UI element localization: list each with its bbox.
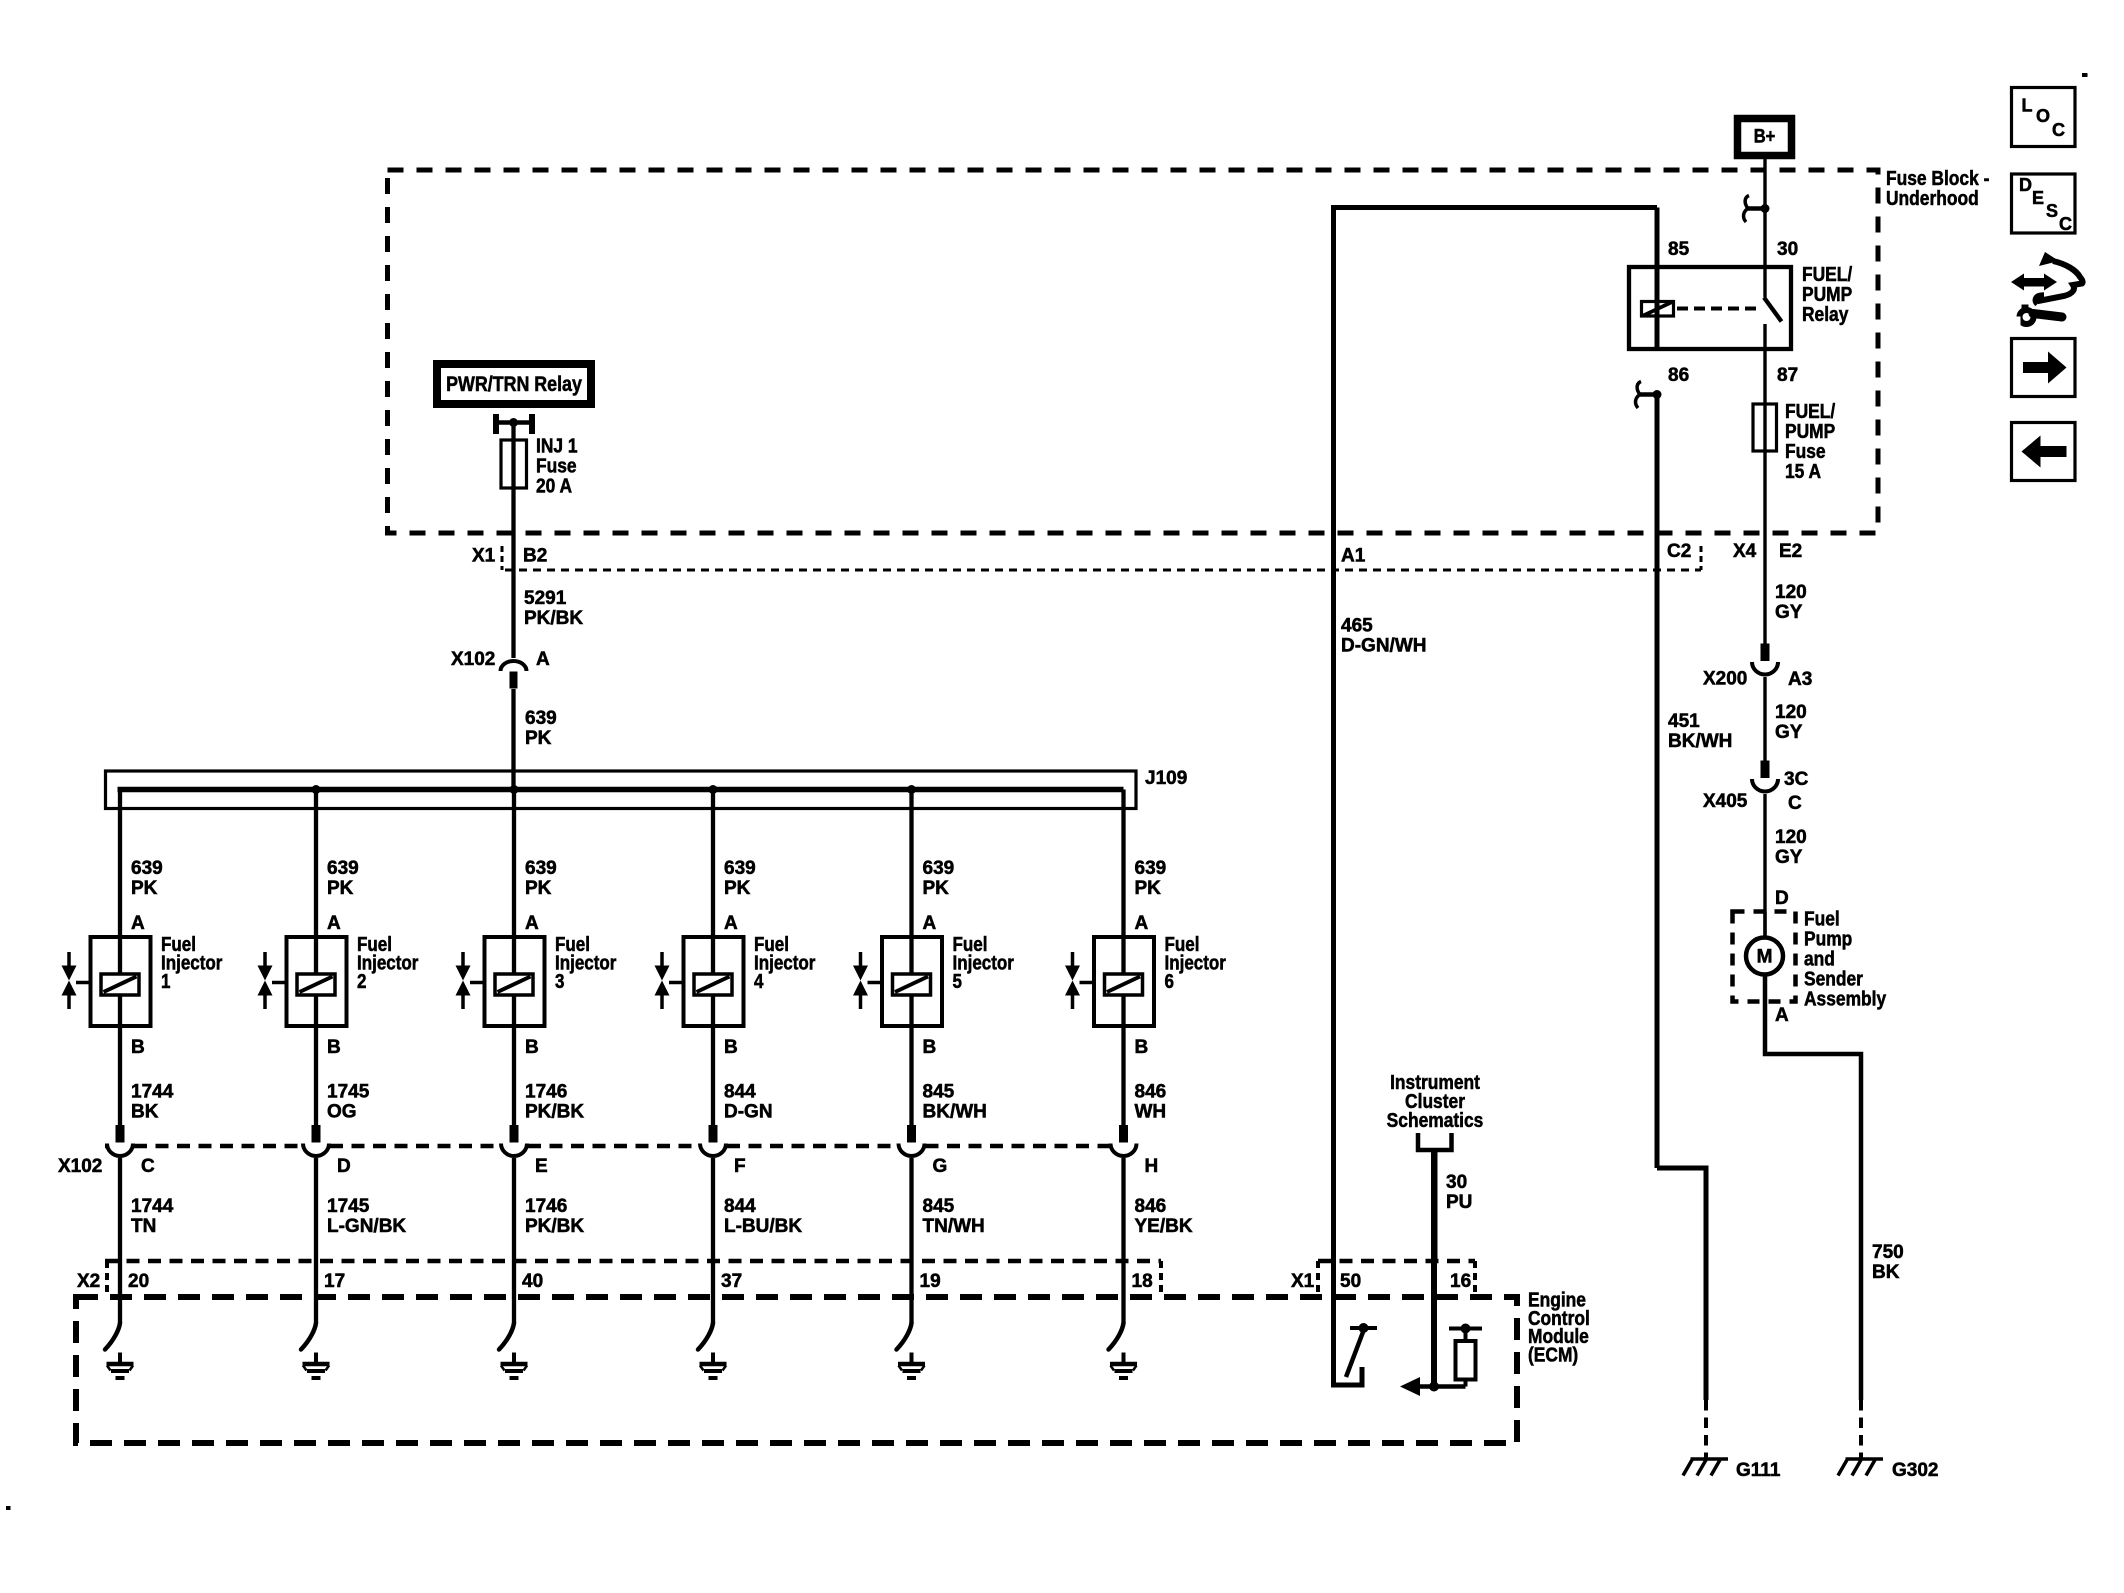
svg-text:844: 844 xyxy=(724,1082,756,1103)
svg-text:A3: A3 xyxy=(1788,669,1812,690)
svg-text:G111: G111 xyxy=(1736,1460,1781,1481)
svg-text:5291: 5291 xyxy=(524,588,567,609)
svg-text:GY: GY xyxy=(1775,602,1803,623)
svg-text:18: 18 xyxy=(1132,1271,1153,1292)
svg-text:1: 1 xyxy=(161,970,170,993)
svg-text:L-GN/BK: L-GN/BK xyxy=(327,1216,406,1237)
svg-text:844: 844 xyxy=(724,1196,756,1217)
svg-text:YE/BK: YE/BK xyxy=(1135,1216,1193,1237)
svg-text:750: 750 xyxy=(1872,1242,1904,1263)
svg-text:PK: PK xyxy=(923,878,950,899)
svg-text:X1: X1 xyxy=(472,546,496,567)
svg-text:A: A xyxy=(923,913,937,934)
svg-text:PK: PK xyxy=(724,878,751,899)
svg-text:BK: BK xyxy=(1872,1262,1900,1283)
svg-text:TN: TN xyxy=(131,1216,156,1237)
svg-text:120: 120 xyxy=(1775,827,1807,848)
svg-text:D-GN/WH: D-GN/WH xyxy=(1341,636,1426,657)
svg-text:PK: PK xyxy=(525,728,552,749)
svg-text:30: 30 xyxy=(1777,239,1798,260)
svg-text:A: A xyxy=(1775,1005,1789,1026)
svg-text:X102: X102 xyxy=(58,1156,102,1177)
svg-text:GY: GY xyxy=(1775,722,1803,743)
svg-text:C: C xyxy=(1788,793,1802,814)
svg-text:GY: GY xyxy=(1775,847,1803,868)
svg-text:639: 639 xyxy=(525,858,557,879)
svg-text:Underhood: Underhood xyxy=(1886,187,1979,209)
svg-text:845: 845 xyxy=(923,1196,955,1217)
svg-text:A: A xyxy=(536,649,550,670)
svg-text:B+: B+ xyxy=(1754,126,1776,147)
svg-text:846: 846 xyxy=(1135,1082,1167,1103)
svg-text:PK: PK xyxy=(525,878,552,899)
svg-text:16: 16 xyxy=(1450,1271,1471,1292)
svg-text:G302: G302 xyxy=(1892,1460,1938,1481)
svg-text:(ECM): (ECM) xyxy=(1528,1343,1578,1365)
svg-text:X200: X200 xyxy=(1703,669,1747,690)
svg-text:30: 30 xyxy=(1446,1172,1467,1193)
svg-text:639: 639 xyxy=(131,858,163,879)
svg-text:Relay: Relay xyxy=(1802,303,1849,325)
svg-text:845: 845 xyxy=(923,1082,955,1103)
svg-text:A: A xyxy=(1135,913,1149,934)
svg-text:B: B xyxy=(525,1037,539,1058)
svg-text:J109: J109 xyxy=(1145,768,1187,789)
svg-text:PU: PU xyxy=(1446,1192,1472,1213)
svg-text:E2: E2 xyxy=(1779,541,1802,562)
svg-text:D: D xyxy=(1775,888,1789,909)
svg-text:PK: PK xyxy=(1135,878,1162,899)
svg-text:1744: 1744 xyxy=(131,1082,174,1103)
svg-text:15 A: 15 A xyxy=(1785,460,1822,482)
svg-text:639: 639 xyxy=(923,858,955,879)
svg-text:BK: BK xyxy=(131,1102,159,1123)
svg-text:H: H xyxy=(1145,1156,1159,1177)
svg-text:PK: PK xyxy=(131,878,158,899)
svg-text:B: B xyxy=(724,1037,738,1058)
svg-text:TN/WH: TN/WH xyxy=(923,1216,985,1237)
svg-text:PK/BK: PK/BK xyxy=(524,608,583,629)
svg-text:X405: X405 xyxy=(1703,791,1748,812)
svg-text:PK/BK: PK/BK xyxy=(525,1216,584,1237)
svg-text:B: B xyxy=(327,1037,341,1058)
svg-text:PWR/TRN Relay: PWR/TRN Relay xyxy=(446,373,582,397)
svg-text:A: A xyxy=(525,913,539,934)
svg-text:86: 86 xyxy=(1668,365,1689,386)
svg-text:20: 20 xyxy=(128,1271,149,1292)
svg-text:85: 85 xyxy=(1668,239,1690,260)
svg-text:37: 37 xyxy=(721,1271,742,1292)
svg-text:G: G xyxy=(933,1156,948,1177)
svg-text:E: E xyxy=(535,1156,548,1177)
svg-text:3C: 3C xyxy=(1784,769,1809,790)
svg-text:L-BU/BK: L-BU/BK xyxy=(724,1216,802,1237)
svg-text:C: C xyxy=(141,1156,155,1177)
svg-text:1744: 1744 xyxy=(131,1196,174,1217)
svg-text:L: L xyxy=(2022,95,2033,115)
svg-text:19: 19 xyxy=(920,1271,941,1292)
svg-text:6: 6 xyxy=(1165,970,1174,993)
svg-text:639: 639 xyxy=(327,858,359,879)
svg-text:1746: 1746 xyxy=(525,1082,567,1103)
svg-text:639: 639 xyxy=(1135,858,1167,879)
svg-text:A1: A1 xyxy=(1341,546,1366,567)
svg-text:PK: PK xyxy=(327,878,354,899)
svg-text:40: 40 xyxy=(522,1271,543,1292)
svg-text:X2: X2 xyxy=(77,1271,100,1292)
svg-text:451: 451 xyxy=(1668,711,1700,732)
svg-text:C2: C2 xyxy=(1667,541,1691,562)
svg-text:E: E xyxy=(2032,188,2044,208)
svg-text:1746: 1746 xyxy=(525,1196,567,1217)
svg-text:A: A xyxy=(327,913,341,934)
svg-text:D: D xyxy=(2019,175,2032,195)
svg-text:M: M xyxy=(1757,947,1773,968)
svg-text:2: 2 xyxy=(357,970,366,993)
svg-text:120: 120 xyxy=(1775,582,1807,603)
svg-text:WH: WH xyxy=(1135,1102,1167,1123)
svg-text:639: 639 xyxy=(525,708,557,729)
svg-text:X1: X1 xyxy=(1291,1271,1315,1292)
svg-text:Assembly: Assembly xyxy=(1804,987,1887,1009)
svg-text:A: A xyxy=(131,913,145,934)
svg-text:50: 50 xyxy=(1340,1271,1361,1292)
svg-text:639: 639 xyxy=(724,858,756,879)
svg-text:C: C xyxy=(2059,214,2072,234)
svg-text:Schematics: Schematics xyxy=(1387,1109,1484,1131)
svg-text:846: 846 xyxy=(1135,1196,1167,1217)
svg-text:B2: B2 xyxy=(523,546,547,567)
svg-text:17: 17 xyxy=(324,1271,345,1292)
svg-text:120: 120 xyxy=(1775,702,1807,723)
svg-text:F: F xyxy=(734,1156,746,1177)
svg-text:465: 465 xyxy=(1341,616,1373,637)
svg-text:1745: 1745 xyxy=(327,1196,370,1217)
svg-text:5: 5 xyxy=(953,970,962,993)
svg-text:20 A: 20 A xyxy=(536,474,573,496)
svg-text:A: A xyxy=(724,913,738,934)
svg-text:OG: OG xyxy=(327,1102,357,1123)
svg-text:1745: 1745 xyxy=(327,1082,370,1103)
svg-text:D: D xyxy=(337,1156,351,1177)
svg-text:X102: X102 xyxy=(451,649,495,670)
svg-text:C: C xyxy=(2052,120,2065,140)
svg-text:S: S xyxy=(2046,201,2058,221)
svg-text:BK/WH: BK/WH xyxy=(1668,731,1732,752)
svg-text:87: 87 xyxy=(1777,365,1798,386)
svg-text:B: B xyxy=(1135,1037,1149,1058)
svg-text:3: 3 xyxy=(555,970,564,993)
svg-text:BK/WH: BK/WH xyxy=(923,1102,987,1123)
svg-text:PK/BK: PK/BK xyxy=(525,1102,584,1123)
svg-text:4: 4 xyxy=(754,970,764,993)
svg-text:O: O xyxy=(2036,106,2050,126)
svg-text:X4: X4 xyxy=(1733,541,1757,562)
svg-text:B: B xyxy=(131,1037,145,1058)
svg-text:D-GN: D-GN xyxy=(724,1102,773,1123)
svg-text:B: B xyxy=(923,1037,937,1058)
